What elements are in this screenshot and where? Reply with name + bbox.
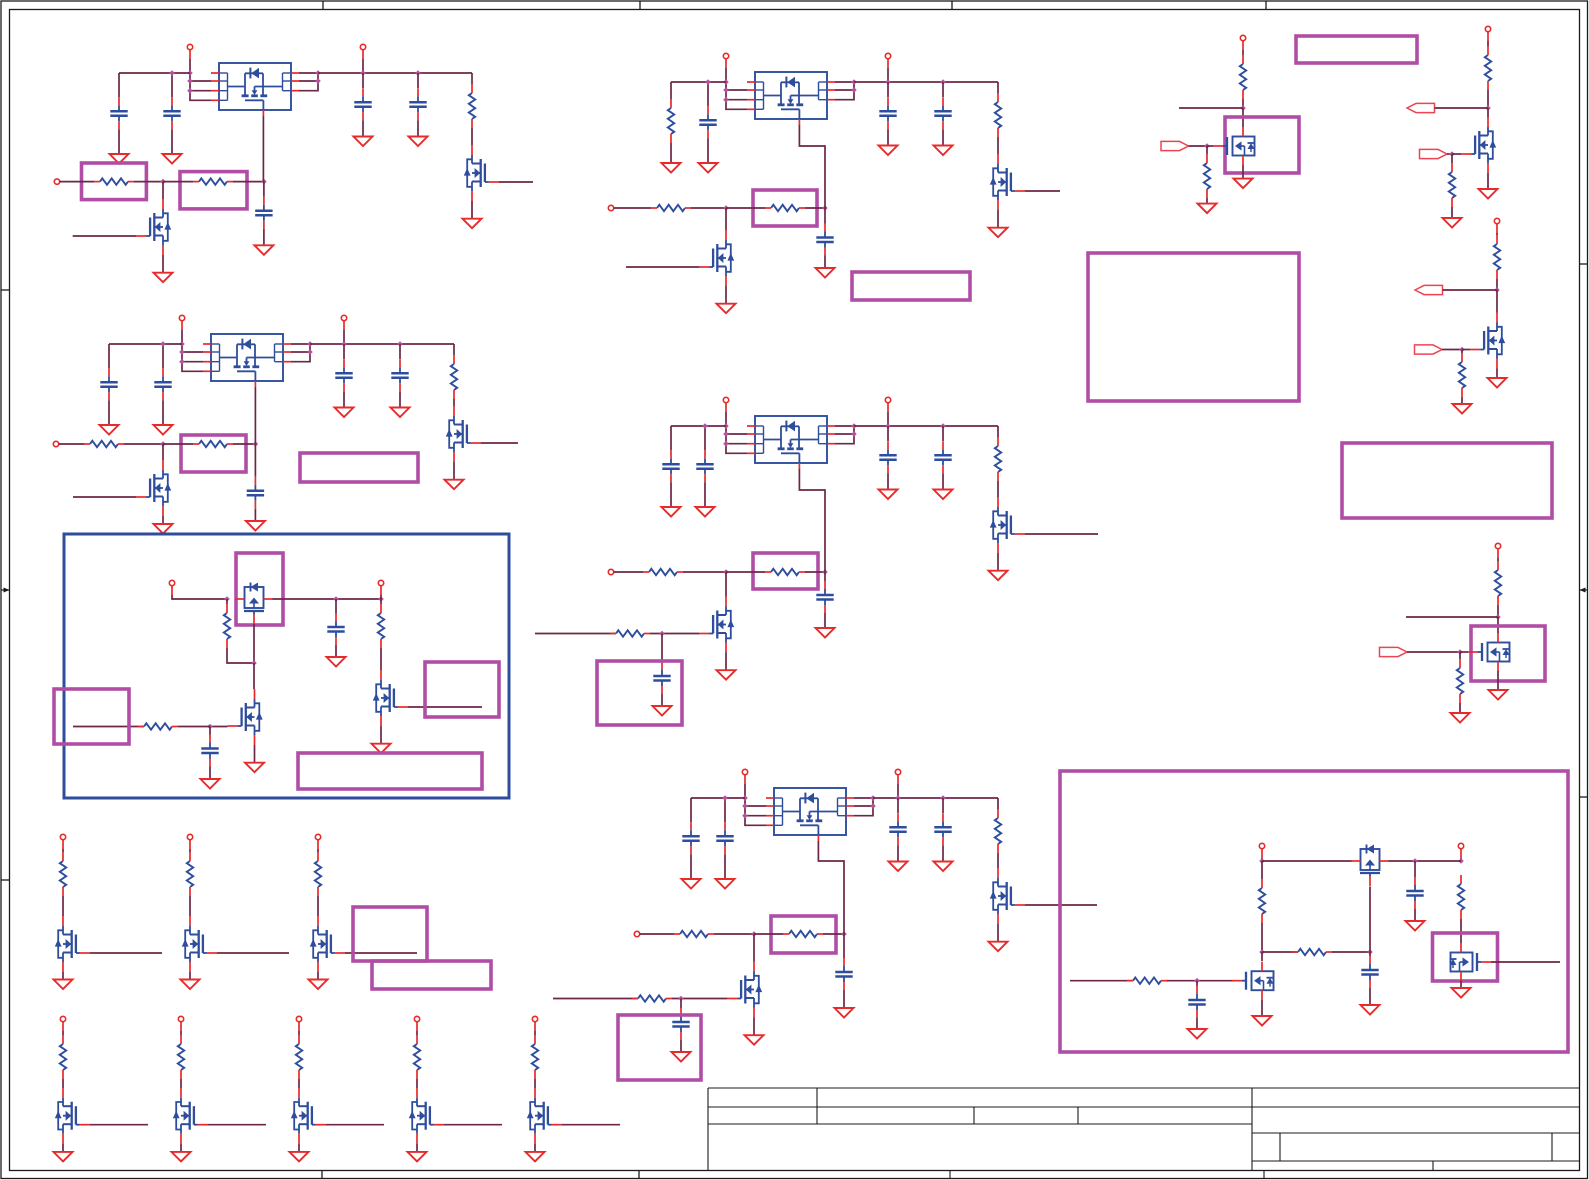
- wire cap drop: [1414, 861, 1416, 877]
- ground: [816, 628, 835, 638]
- wire drop: [317, 849, 319, 852]
- wire pullup drop: [997, 798, 999, 809]
- power flag VOUT5: [895, 769, 900, 784]
- node PG2 gate net: [1449, 151, 1455, 157]
- ground: [816, 268, 835, 278]
- wire pin 3 out hook: [291, 344, 310, 362]
- highlight box note B3: [852, 272, 970, 300]
- ground: [1198, 204, 1217, 214]
- wire output rail: [873, 797, 998, 799]
- wire pin 2 out: [835, 89, 854, 91]
- wire bias down: [1261, 923, 1263, 952]
- power flag EN1 input: [54, 179, 59, 184]
- wire VIN3 drop: [725, 68, 727, 82]
- resistor R4g gate: [765, 569, 805, 575]
- wire drop: [416, 1031, 418, 1035]
- ground: [653, 706, 672, 716]
- wire out cap1 drop: [887, 82, 889, 97]
- wire gate resistor out: [823, 933, 844, 935]
- resistor R73 pull-up: [315, 852, 321, 896]
- power flag P1 row2: [60, 1016, 65, 1031]
- wire VBB2 drop: [380, 595, 382, 599]
- wire VIN5 drop: [744, 784, 746, 798]
- wire pin 1 out: [835, 425, 854, 427]
- power flag P5 row2: [532, 1016, 537, 1031]
- wire res to Q6c: [380, 648, 382, 670]
- ground: [879, 490, 898, 500]
- highlight box drive input: [54, 689, 129, 744]
- capacitor C53 output: [889, 813, 906, 845]
- net flag PG3 output: [1415, 285, 1443, 294]
- capacitor C52 input: [716, 822, 733, 854]
- wire res to node: [1497, 605, 1499, 617]
- load switch U1: [211, 63, 299, 116]
- wire filter cap ground: [209, 767, 211, 780]
- wire to gate cap: [843, 934, 845, 958]
- node input rail tap: [705, 79, 711, 85]
- capacitor C1g gate: [255, 197, 272, 229]
- capacitor C9a rail: [1406, 877, 1423, 909]
- resistor R4pu pull-up: [995, 437, 1001, 481]
- wire input pin tie: [725, 82, 727, 100]
- node out cap2 tap: [397, 341, 403, 347]
- wire gate cap drop: [1369, 952, 1371, 956]
- wire gate pulldown: [1461, 350, 1463, 354]
- node out cap2 tap: [940, 79, 946, 85]
- wire input pin tie: [181, 344, 183, 362]
- wire source ground: [189, 972, 191, 980]
- resistor R3e series: [651, 205, 691, 211]
- wire cap ground: [1414, 909, 1416, 921]
- node pin3 junction: [179, 359, 185, 365]
- wire cap to ground: [362, 120, 364, 136]
- wire rail left: [1262, 860, 1352, 862]
- resistor R1pu pull-up: [469, 84, 475, 128]
- wire pin 2: [190, 80, 211, 82]
- highlight box note top right: [1296, 36, 1417, 63]
- wire res to Q: [298, 1079, 300, 1088]
- wire VIN2 drop: [181, 330, 183, 344]
- wire Q6c source ground: [380, 726, 382, 744]
- resistor R2e series: [84, 441, 124, 447]
- ground: [172, 1152, 191, 1162]
- wire to Q6b drain: [253, 663, 255, 689]
- wire drop: [62, 1031, 64, 1035]
- ground: [290, 1152, 309, 1162]
- wire gate drive input: [535, 633, 616, 635]
- wire cap to ground: [670, 482, 672, 507]
- ground: [54, 1152, 73, 1162]
- capacitor C23 output: [335, 359, 352, 391]
- wire pin 3 out hook: [835, 82, 854, 100]
- wire Q gate drive: [73, 496, 136, 498]
- wire drop: [1497, 558, 1499, 561]
- wire cap to ground: [942, 129, 944, 145]
- wire status output: [1025, 190, 1060, 192]
- ground: [1253, 1016, 1272, 1026]
- wire gate cap ground: [843, 990, 845, 1008]
- capacitor C54 output: [934, 813, 951, 845]
- wire cap drop: [707, 82, 709, 106]
- node VOUT junction: [341, 341, 347, 347]
- node output pin2 junction: [315, 78, 321, 84]
- wire gate pulldown: [1206, 146, 1208, 154]
- wire to Q drain: [1496, 290, 1498, 313]
- ground: [409, 137, 428, 147]
- wire Q source ground: [725, 286, 727, 304]
- wire pin 3 out hook: [835, 426, 854, 444]
- highlight box status flag: [425, 662, 499, 717]
- highlight box resistor R1e: [82, 163, 147, 200]
- wire to gate: [1452, 153, 1461, 155]
- wire VOUT drop: [887, 412, 889, 426]
- capacitor C4g gate: [816, 581, 833, 613]
- node enable junction: [160, 179, 166, 185]
- ground: [1234, 179, 1253, 189]
- transistor Q82: [173, 1088, 208, 1144]
- power flag VOUT3: [885, 53, 890, 68]
- wire res to node: [1496, 279, 1498, 290]
- wire enable link: [691, 207, 726, 209]
- ground: [934, 862, 953, 872]
- wire gate cap ground: [824, 613, 826, 628]
- ground: [699, 163, 718, 173]
- wire cap drop: [704, 426, 706, 450]
- transistor Q4b status: [990, 497, 1025, 553]
- wire gate resistor out: [805, 571, 825, 573]
- node VCC1: [1259, 858, 1265, 864]
- transistor Q81: [55, 1088, 90, 1144]
- resistor R5e series: [674, 931, 714, 937]
- load switch U4: [747, 416, 835, 469]
- resistor R4e series: [643, 569, 683, 575]
- wire res to Q drain: [471, 128, 473, 145]
- resistor R3g gate: [765, 205, 805, 211]
- node VOUT junction: [360, 70, 366, 76]
- wire source ground: [298, 1144, 300, 1152]
- wire Q source to ground: [453, 462, 455, 480]
- wire cap drop: [670, 426, 672, 450]
- wire cap to ground: [171, 129, 173, 154]
- wire drop: [62, 849, 64, 852]
- capacitor C14 output: [409, 88, 426, 120]
- net flag PG3 gate: [1415, 345, 1443, 354]
- node output pin2 junction: [307, 349, 313, 355]
- ground: [745, 1035, 764, 1045]
- wire gate pulldown: [1459, 652, 1461, 659]
- wire source ground: [62, 972, 64, 980]
- resistor PG2 pull-up: [1485, 46, 1491, 90]
- wire enable to Q drain: [162, 444, 164, 460]
- highlight box PG4: [1471, 626, 1545, 681]
- ground: [696, 507, 715, 517]
- ground: [1453, 404, 1472, 414]
- wire pullup drop: [453, 344, 455, 355]
- wire gate pin drop: [254, 387, 256, 444]
- wire res ground: [1451, 207, 1453, 218]
- load switch U3: [747, 72, 835, 125]
- wire drop: [189, 849, 191, 852]
- transistor Q1b status: [464, 145, 499, 201]
- wire pin 3: [726, 99, 747, 101]
- wire out cap ground: [335, 645, 337, 657]
- resistor R9b gate: [1292, 949, 1332, 955]
- resistor R9a bias: [1259, 879, 1265, 923]
- wire cap to ground: [887, 473, 889, 489]
- highlight box PMOS Q6a: [236, 553, 283, 625]
- capacitor C13 output: [354, 88, 371, 120]
- ground: [1452, 988, 1471, 998]
- wire to Q drain: [1487, 108, 1489, 117]
- wire res to Q: [317, 896, 319, 916]
- node VCC2: [1458, 858, 1464, 864]
- wire VCC1 drop: [1261, 858, 1263, 861]
- wire to gate resistor: [726, 571, 765, 573]
- wire cap to ground: [417, 120, 419, 136]
- ground: [391, 408, 410, 418]
- ground: [1451, 713, 1470, 723]
- wire input pin tie: [189, 73, 191, 91]
- net flag PG2 gate: [1420, 149, 1448, 158]
- wire filter cap: [661, 634, 663, 663]
- wire gate input: [90, 952, 162, 954]
- wire enable to Q drain: [753, 934, 755, 962]
- wire enable link: [134, 181, 163, 183]
- wire gate input: [90, 1124, 148, 1126]
- capacitor C11 input: [110, 97, 127, 129]
- wire res to Q drain: [453, 399, 455, 406]
- wire res to Q drain: [997, 853, 999, 868]
- power flag VIN1: [187, 44, 192, 59]
- transistor Q9b driver: [1232, 962, 1274, 1000]
- wire output rail: [854, 81, 998, 83]
- ground: [1479, 189, 1498, 199]
- wire pin 3: [190, 90, 211, 92]
- capacitor C22 input: [154, 368, 171, 400]
- power flag PG2: [1485, 26, 1490, 41]
- node VBB2: [378, 596, 384, 602]
- node output rail junction: [851, 423, 857, 429]
- wire status output: [1025, 904, 1097, 906]
- wire res to Q drain: [997, 137, 999, 154]
- highlight box resistor R2g: [181, 435, 246, 472]
- wire filter cap ground: [1196, 1018, 1198, 1029]
- capacitor C51 input: [682, 822, 699, 854]
- ground: [989, 571, 1008, 581]
- node output rail junction: [851, 79, 857, 85]
- wire gate resistor out: [805, 207, 825, 209]
- wire cap to ground: [108, 400, 110, 425]
- wire pin 3: [182, 361, 203, 363]
- wire to gate res: [1262, 951, 1298, 953]
- node enable junction: [723, 205, 729, 211]
- wire out cap2 drop: [399, 344, 401, 359]
- wire drop: [1487, 41, 1489, 46]
- wire input rail: [671, 425, 726, 427]
- wire status output: [499, 181, 533, 183]
- wire filter cap drop: [209, 727, 211, 735]
- node pin3 junction: [723, 97, 729, 103]
- capacitor C42 input: [696, 450, 713, 482]
- resistor PG3 pull-up: [1494, 235, 1500, 279]
- wire enable input: [60, 181, 94, 183]
- ground: [463, 219, 482, 229]
- wire gate input: [326, 1124, 384, 1126]
- wire cap to ground: [704, 482, 706, 507]
- capacitor C44 output: [934, 441, 951, 473]
- node VIN3 junction: [723, 79, 729, 85]
- node pin3 junction: [742, 813, 748, 819]
- highlight box note array2: [372, 961, 491, 989]
- wire source ground: [1497, 671, 1499, 690]
- power flag P3 row1: [315, 834, 320, 849]
- wire to gate cap: [824, 208, 826, 224]
- wire res ground: [1459, 703, 1461, 713]
- wire to gate resistor: [163, 443, 193, 445]
- wire input rail: [119, 72, 190, 74]
- power flag VIN2: [179, 315, 184, 330]
- power flag PG4: [1495, 543, 1500, 558]
- node gate net: [822, 569, 828, 575]
- wire Q gate drive: [626, 266, 699, 268]
- power flag VBB2: [378, 580, 383, 595]
- wire source ground: [534, 1144, 536, 1152]
- wire gate resistor out: [233, 181, 264, 183]
- wire out cap2 drop: [942, 82, 944, 97]
- node enable junction: [160, 441, 166, 447]
- wire gate drive input: [553, 998, 638, 1000]
- wire enable to Q drain: [162, 182, 164, 199]
- node VIN5 junction: [742, 795, 748, 801]
- ground: [835, 1008, 854, 1018]
- wire drop: [1242, 50, 1244, 55]
- highlight box resistor R5g: [771, 916, 836, 953]
- wire out cap2 drop: [942, 798, 944, 813]
- wire source ground: [1242, 165, 1244, 179]
- ground: [672, 1052, 691, 1062]
- resistor R81 pull-up: [60, 1035, 66, 1079]
- wire output rail: [310, 343, 454, 345]
- capacitor C32 input: [699, 106, 716, 138]
- wire gate input: [444, 1124, 502, 1126]
- wire VIN1 drop: [189, 59, 191, 73]
- power flag P2 row1: [187, 834, 192, 849]
- wire cap to ground: [724, 854, 726, 879]
- node PG4 drain net: [1495, 614, 1501, 620]
- node output pin2 junction: [851, 431, 857, 437]
- wire pin 2 out: [299, 80, 318, 82]
- node pin2 junction: [187, 78, 193, 84]
- resistor PG1 gate pulldown: [1204, 154, 1210, 198]
- highlight box note array1: [353, 907, 427, 961]
- wire stub out: [1179, 107, 1243, 109]
- power flag VCC2: [1458, 843, 1463, 858]
- wire gate pin jog: [799, 125, 825, 208]
- net flag PG4 gate: [1380, 647, 1408, 656]
- transistor Q5a enable: [727, 962, 762, 1018]
- wire filter cap ground: [661, 694, 663, 706]
- wire gate pin jog: [799, 469, 825, 572]
- node pin2 junction: [723, 87, 729, 93]
- transistor Q3b status: [990, 154, 1025, 210]
- wire to gate: [1460, 651, 1468, 653]
- node pin2 junction: [742, 803, 748, 809]
- wire res to Q drain: [997, 481, 999, 497]
- wire drive to gate: [178, 726, 210, 728]
- resistor PG3 gate pulldown: [1459, 353, 1465, 397]
- wire drive input: [73, 726, 144, 728]
- highlight box resistor R3g: [753, 190, 817, 226]
- wire output rail: [854, 425, 998, 427]
- capacitor C41 input: [662, 450, 679, 482]
- node pin2 junction: [723, 431, 729, 437]
- node out cap tap: [333, 596, 339, 602]
- resistor R82 pull-up: [178, 1035, 184, 1079]
- wire gate pulldown: [1451, 154, 1453, 163]
- transistor PG2 Q: [1461, 117, 1496, 173]
- wire gate resistor out: [233, 443, 255, 445]
- ground: [246, 521, 265, 531]
- node input rail tap: [702, 423, 708, 429]
- wire gate input: [1442, 349, 1462, 351]
- load switch U2: [203, 334, 291, 387]
- wire res to Q: [534, 1079, 536, 1088]
- wire enable to Q drain: [725, 572, 727, 597]
- ground: [327, 657, 346, 667]
- wire res to ground: [670, 143, 672, 163]
- wire source ground: [1460, 981, 1462, 988]
- power flag P3 row2: [296, 1016, 301, 1031]
- wire source ground: [62, 1144, 64, 1152]
- wire pin 2: [726, 433, 747, 435]
- wire Q source ground: [753, 1018, 755, 1036]
- resistor R3pu pull-up: [995, 93, 1001, 137]
- capacitor C9c filter: [1188, 986, 1205, 1018]
- highlight box output fet: [1433, 933, 1498, 981]
- wire pin 1 out: [835, 81, 854, 83]
- ground: [110, 154, 129, 164]
- resistor PG4 pull-up: [1495, 561, 1501, 605]
- resistor R2g gate: [193, 441, 233, 447]
- resistor R6a bias: [224, 604, 230, 648]
- node pin3 junction: [723, 441, 729, 447]
- wire to gate cap: [254, 444, 256, 477]
- wire input rail: [109, 343, 182, 345]
- wire gate link: [210, 726, 228, 728]
- ground: [372, 744, 391, 754]
- wire cap drop: [118, 73, 120, 97]
- wire input rail: [671, 81, 726, 83]
- wire PMOS gate down: [253, 624, 255, 663]
- highlight box PG1: [1225, 117, 1299, 173]
- wire out cap1 drop: [343, 344, 345, 359]
- highlight box note mid right: [1342, 443, 1552, 518]
- wire bias drop: [1261, 861, 1263, 879]
- resistor R4d gate drive: [610, 630, 650, 636]
- wire pin 4 hook: [745, 816, 766, 826]
- wire gate input: [562, 1124, 620, 1126]
- ground: [879, 146, 898, 156]
- wire Q source to ground: [997, 553, 999, 571]
- node gate filter: [659, 631, 665, 637]
- wire to Q gate: [650, 633, 699, 635]
- transistor PG1 Q: [1213, 127, 1255, 165]
- power flag VIN4: [723, 397, 728, 412]
- transistor Q72: [182, 916, 217, 972]
- wire res to Q: [180, 1079, 182, 1088]
- wire pin 1 out: [854, 797, 873, 799]
- wire pin 1 out: [291, 343, 310, 345]
